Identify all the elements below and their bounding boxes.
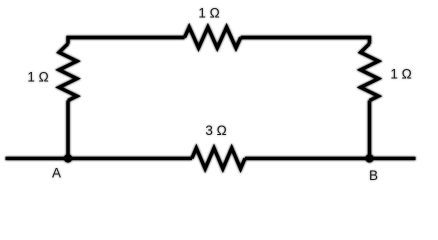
svg-text:1 Ω: 1 Ω xyxy=(198,6,219,21)
wire: R1 top lead, top-left corner, top rail to R2 xyxy=(68,38,185,44)
wire: node A up to R1 bottom lead xyxy=(66,101,69,159)
resistor R2 1 ohm (top horizontal) xyxy=(185,27,241,48)
node B junction dot xyxy=(365,154,373,162)
svg-text:1 Ω: 1 Ω xyxy=(27,69,48,84)
svg-text:B: B xyxy=(369,168,378,183)
svg-text:A: A xyxy=(52,165,61,180)
svg-text:3 Ω: 3 Ω xyxy=(205,123,226,138)
wire: R2 right lead, top rail, top-right corner down to R4 xyxy=(241,38,370,44)
wire: node B to bottom-right terminal xyxy=(370,157,416,160)
wire: R4 bottom lead down to node B xyxy=(368,101,371,159)
wire: R3 right lead to node B xyxy=(245,157,370,160)
resistor R4 1 ohm (right vertical) xyxy=(361,44,379,101)
resistor R3 3 ohm (bottom) xyxy=(192,148,245,169)
resistor R1 1 ohm (left vertical) xyxy=(59,44,77,101)
wire: bottom-left terminal to node A xyxy=(6,157,69,160)
wire: node A to R3 left lead xyxy=(68,157,192,160)
node A junction dot xyxy=(64,154,72,162)
svg-text:1 Ω: 1 Ω xyxy=(390,67,411,82)
